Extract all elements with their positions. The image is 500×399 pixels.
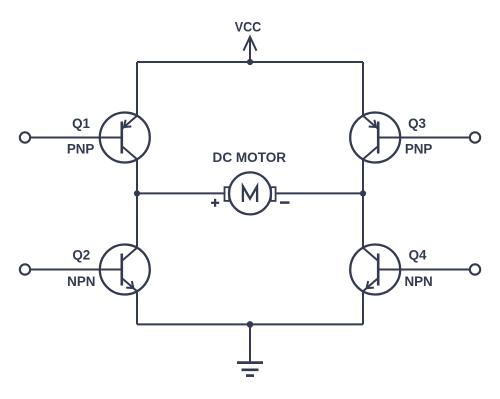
wire VCC rail to Q1 emitter: [136, 62, 138, 116]
label M (motor): [243, 186, 257, 202]
junction dot node A: [134, 190, 140, 196]
svg-text:Q3: Q3: [408, 116, 426, 131]
terminal input 1 (Q1 base): [20, 132, 30, 142]
wire Q2 base: [30, 269, 122, 271]
terminal input 3 (Q3 base): [470, 132, 480, 142]
terminal input 2 (Q2 base): [20, 264, 30, 274]
wire top rail: [137, 61, 363, 63]
transistor Q2: [100, 245, 150, 295]
svg-text:PNP: PNP: [67, 142, 95, 157]
wire Q1 collector to node A: [136, 159, 138, 194]
transistor Q4: [350, 245, 400, 295]
terminal input 4 (Q4 base): [470, 264, 480, 274]
wire node B to Q4 collector: [362, 193, 364, 248]
transistor Q1: [100, 113, 150, 163]
svg-text:VCC: VCC: [235, 18, 262, 34]
svg-text:NPN: NPN: [404, 274, 432, 289]
wire bottom rail: [137, 323, 363, 325]
power VCC symbol: [244, 37, 257, 62]
wire node A to Q2 collector: [136, 193, 138, 248]
ground: [237, 324, 263, 375]
label − (motor polarity): [280, 201, 290, 204]
wire VCC rail to Q3 emitter: [362, 62, 364, 116]
svg-text:DC MOTOR: DC MOTOR: [213, 150, 287, 165]
junction dot ground / bottom rail: [247, 321, 254, 328]
wire node A to motor + terminal: [137, 192, 225, 194]
motor M1 DC motor: [225, 172, 276, 214]
junction dot VCC / top rail: [247, 59, 253, 65]
transistor Q3: [350, 113, 400, 163]
svg-text:Q4: Q4: [409, 247, 427, 262]
svg-text:NPN: NPN: [67, 274, 95, 289]
label + (motor polarity): [211, 199, 219, 207]
wire motor − terminal to node B: [276, 192, 363, 194]
svg-text:Q2: Q2: [72, 247, 90, 262]
svg-text:Q1: Q1: [72, 116, 90, 131]
wire Q3 base: [378, 137, 470, 139]
wire Q4 base: [378, 269, 470, 271]
wire Q4 emitter to bottom rail: [362, 291, 364, 325]
wire Q1 base: [30, 137, 122, 139]
junction dot node B: [360, 190, 366, 196]
wire Q2 emitter to bottom rail: [136, 291, 138, 325]
wire Q3 collector to node B: [362, 159, 364, 194]
svg-text:PNP: PNP: [405, 142, 433, 157]
